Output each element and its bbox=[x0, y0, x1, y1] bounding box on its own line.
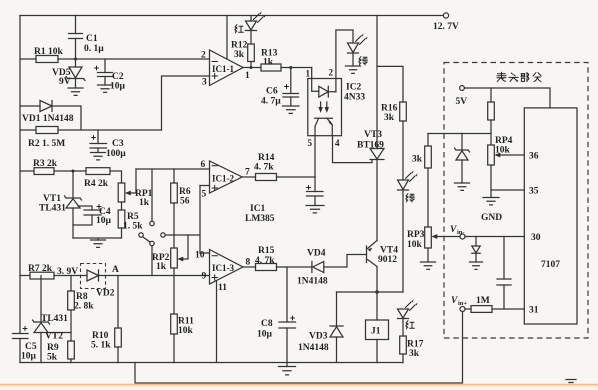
IC 7107 bbox=[524, 108, 577, 324]
svg-text:10k: 10k bbox=[178, 326, 194, 336]
svg-text:RP4: RP4 bbox=[495, 136, 513, 146]
svg-text:C8: C8 bbox=[261, 319, 273, 329]
svg-text:5k: 5k bbox=[47, 353, 58, 363]
svg-text:R8: R8 bbox=[76, 292, 88, 302]
svg-text:VD3: VD3 bbox=[309, 332, 328, 342]
svg-text:R6: R6 bbox=[179, 187, 191, 197]
capacitor C5 10u bbox=[19, 276, 21, 363]
terminal Vin+ bbox=[460, 307, 465, 312]
resistor R11 10k bbox=[173, 268, 175, 363]
svg-text:GND: GND bbox=[481, 213, 502, 223]
diode VD1 1N4148 bbox=[20, 106, 81, 130]
svg-text:3k: 3k bbox=[384, 113, 395, 123]
svg-text:4. 7k: 4. 7k bbox=[254, 163, 274, 173]
svg-text:2. 8k: 2. 8k bbox=[74, 302, 94, 312]
svg-text:VT1: VT1 bbox=[43, 194, 61, 204]
svg-text:1: 1 bbox=[245, 71, 250, 81]
op-amp IC1-1 bbox=[210, 50, 244, 86]
svg-text:R17: R17 bbox=[407, 340, 424, 350]
svg-text:V: V bbox=[451, 296, 458, 306]
ground under C7 bbox=[306, 206, 324, 213]
svg-text:IC1-1: IC1-1 bbox=[212, 64, 234, 74]
capacitor C6 4.7u bbox=[289, 66, 292, 69]
orange page rule bbox=[0, 384, 598, 386]
resistor R15 4.7k bbox=[256, 264, 277, 271]
resistor R14 4.7k bbox=[256, 174, 277, 181]
svg-text:R1 10k: R1 10k bbox=[34, 47, 63, 57]
svg-text:7: 7 bbox=[245, 168, 250, 178]
svg-text:11: 11 bbox=[218, 283, 227, 293]
resistor R2 1.5M bbox=[20, 129, 162, 131]
capacitor C9 internal bbox=[503, 237, 505, 310]
wire IC1-1 output bbox=[243, 67, 261, 69]
diode VD4 1N4148 bbox=[311, 262, 313, 273]
svg-text:2: 2 bbox=[329, 68, 334, 78]
svg-text:C2: C2 bbox=[112, 72, 124, 82]
resistor R16 3k bbox=[400, 102, 407, 121]
resistor R10 5.1k bbox=[117, 276, 119, 363]
svg-text:in+: in+ bbox=[458, 300, 467, 307]
svg-text:R7 2k: R7 2k bbox=[28, 264, 53, 274]
svg-text:10k: 10k bbox=[407, 240, 423, 250]
resistor R9 5k bbox=[68, 341, 75, 359]
svg-text:35: 35 bbox=[529, 187, 539, 197]
svg-text:100µ: 100µ bbox=[106, 149, 126, 159]
svg-text:5. 1k: 5. 1k bbox=[91, 341, 111, 351]
node VT4 collector bbox=[375, 290, 379, 294]
svg-text:TL431: TL431 bbox=[39, 204, 66, 214]
svg-text:1: 1 bbox=[306, 69, 311, 79]
resistor R7 2k bbox=[20, 275, 81, 277]
svg-text:30: 30 bbox=[531, 233, 541, 243]
svg-text:R11: R11 bbox=[178, 317, 194, 327]
wire opto pin5 riser bbox=[314, 136, 316, 177]
ground under C3 bbox=[91, 153, 106, 160]
wire IC1-3 pin11 ground bbox=[216, 281, 218, 363]
svg-text:6: 6 bbox=[201, 160, 206, 170]
capacitor C3 100u bbox=[97, 130, 99, 153]
svg-text:BT169: BT169 bbox=[357, 141, 384, 151]
resistor R4 2k bbox=[86, 168, 110, 175]
switch S contacts bbox=[150, 221, 154, 225]
wire bottom common rail bbox=[20, 362, 403, 364]
opto phototransistor bbox=[315, 117, 333, 119]
svg-text:1k: 1k bbox=[156, 262, 167, 272]
svg-text:7107: 7107 bbox=[541, 260, 560, 270]
wire IC1-1 pin3 riser bbox=[162, 76, 210, 130]
svg-text:4. 7k: 4. 7k bbox=[255, 256, 275, 266]
protection diode under Vin- bbox=[475, 237, 477, 247]
svg-text:5: 5 bbox=[202, 190, 207, 200]
resistor R6 56 bbox=[173, 169, 175, 248]
zener VD5 9V bbox=[75, 59, 77, 67]
svg-text:VD1 1N4148: VD1 1N4148 bbox=[22, 114, 74, 124]
svg-text:10µ: 10µ bbox=[21, 352, 37, 362]
svg-text:12. 7V: 12. 7V bbox=[433, 22, 459, 32]
wire top supply rail bbox=[20, 15, 443, 17]
svg-text:in-: in- bbox=[457, 229, 465, 236]
ground under VD5 bbox=[68, 88, 83, 95]
wire opto pin2 to green LED bbox=[336, 30, 353, 92]
svg-text:RP3: RP3 bbox=[407, 230, 425, 240]
svg-text:VT4: VT4 bbox=[380, 246, 398, 256]
svg-text:IC1-2: IC1-2 bbox=[212, 174, 234, 184]
resistor 1M bbox=[465, 308, 524, 310]
label red (hong) bbox=[235, 25, 244, 34]
wire IC1-2 pin5 bbox=[200, 185, 210, 187]
opto internal LED bbox=[312, 68, 319, 92]
terminal Vin- bbox=[436, 236, 460, 238]
svg-text:VD2: VD2 bbox=[96, 289, 115, 299]
wire switch pole to A rail bbox=[151, 246, 153, 276]
svg-text:3: 3 bbox=[202, 78, 207, 88]
svg-text:3k: 3k bbox=[409, 349, 420, 359]
capacitor C7 bbox=[314, 177, 316, 206]
resistor R5 1.5k bbox=[118, 210, 125, 228]
svg-text:10µ: 10µ bbox=[257, 330, 273, 340]
svg-text:A: A bbox=[112, 265, 119, 275]
capacitor C1 bbox=[75, 16, 77, 60]
svg-text:3k: 3k bbox=[234, 50, 245, 60]
svg-text:R4 2k: R4 2k bbox=[84, 179, 109, 189]
svg-text:R10: R10 bbox=[92, 331, 109, 341]
svg-text:1N4148: 1N4148 bbox=[297, 277, 328, 287]
ground under C2 bbox=[98, 85, 113, 92]
optocoupler IC2 4N33 bbox=[308, 79, 342, 136]
svg-text:VT2: VT2 bbox=[45, 332, 63, 342]
relay J1 bbox=[376, 292, 378, 363]
svg-text:V: V bbox=[450, 225, 457, 235]
svg-text:31: 31 bbox=[529, 306, 539, 316]
terminal 12.7V bbox=[443, 13, 448, 18]
svg-text:TL431: TL431 bbox=[41, 314, 68, 324]
resistor R17 3k bbox=[400, 336, 407, 354]
opto coupling arrows bbox=[321, 102, 327, 108]
capacitor C2 bbox=[104, 59, 106, 85]
wire link to 3k bbox=[428, 133, 491, 135]
ground GND in meter box bbox=[490, 190, 492, 198]
svg-text:10µ: 10µ bbox=[110, 82, 126, 92]
zener in meter box bbox=[461, 134, 463, 151]
switch lever bbox=[143, 237, 151, 243]
svg-text:5: 5 bbox=[308, 138, 313, 148]
resistor R8 2.8k bbox=[70, 276, 72, 342]
svg-text:R9: R9 bbox=[47, 343, 59, 353]
diode VD2 in dashed box bbox=[81, 264, 106, 289]
svg-text:R3 2k: R3 2k bbox=[33, 159, 58, 169]
svg-text:0. 1µ: 0. 1µ bbox=[84, 44, 104, 54]
svg-text:C3: C3 bbox=[112, 139, 124, 149]
LED green middle bbox=[398, 180, 409, 190]
shunt reg VT2 TL431 bbox=[40, 276, 42, 323]
wire opto pin4 to VT3 gate bbox=[333, 136, 373, 163]
wire 5V feed bbox=[464, 88, 550, 108]
svg-text:4: 4 bbox=[335, 138, 340, 148]
dashed meter box bbox=[444, 63, 588, 339]
thyristor VT3 BT169 bbox=[376, 16, 378, 149]
svg-text:9V: 9V bbox=[59, 77, 71, 87]
label meter section (biao tou bu fen) bbox=[497, 72, 506, 81]
wire IC1-1 V+ riser bbox=[226, 16, 228, 60]
svg-text:56: 56 bbox=[180, 197, 190, 207]
ground node VT1/C4/R5 bbox=[73, 238, 122, 240]
svg-text:R12: R12 bbox=[231, 41, 248, 51]
resistor R12 3k bbox=[248, 44, 255, 62]
svg-text:VD4: VD4 bbox=[307, 249, 326, 259]
svg-text:J1: J1 bbox=[371, 327, 381, 337]
svg-text:1N4148: 1N4148 bbox=[298, 343, 329, 353]
wire outer bottom return bbox=[135, 312, 463, 384]
svg-text:LM385: LM385 bbox=[245, 214, 275, 224]
op-amp IC1-2 bbox=[210, 161, 243, 193]
pot RP3 10k bbox=[425, 227, 432, 248]
op-amp IC1-3 bbox=[210, 250, 244, 285]
page artifact marks bbox=[566, 380, 576, 383]
svg-text:1. 5k: 1. 5k bbox=[123, 222, 143, 232]
svg-text:IC2: IC2 bbox=[346, 83, 362, 93]
resistor R3 2k bbox=[20, 170, 86, 172]
node R1-C1-VD5 bbox=[74, 58, 77, 61]
wire IC1-3 output bbox=[243, 266, 256, 268]
svg-text:R14: R14 bbox=[258, 153, 275, 163]
resistor R13 1k bbox=[261, 64, 281, 71]
svg-text:C1: C1 bbox=[86, 34, 98, 44]
wire comparator reference rail bbox=[136, 168, 210, 170]
shunt reg VT1 TL431 bbox=[72, 171, 74, 198]
svg-text:R5: R5 bbox=[127, 212, 139, 222]
resistor upper divider bbox=[490, 88, 492, 102]
label red (hong) bottom bbox=[406, 321, 415, 330]
svg-text:1k: 1k bbox=[263, 58, 274, 68]
wire left vertical bus bbox=[19, 16, 21, 276]
pot RP1 1k bbox=[118, 183, 125, 202]
svg-text:R2 1. 5M: R2 1. 5M bbox=[28, 139, 65, 149]
svg-text:R15: R15 bbox=[258, 246, 275, 256]
svg-text:C6: C6 bbox=[266, 87, 278, 97]
svg-text:1k: 1k bbox=[139, 198, 150, 208]
label green (lv) bbox=[359, 57, 367, 66]
wire switch to comparator inputs bbox=[165, 186, 200, 254]
diode VD3 1N4148 bbox=[336, 292, 338, 326]
ground under C6 bbox=[283, 106, 300, 113]
pot RP2 1k bbox=[171, 248, 178, 268]
svg-text:3. 9V: 3. 9V bbox=[57, 267, 78, 277]
ground under green LED bbox=[346, 66, 361, 73]
resistor 3k outside box bbox=[427, 134, 429, 147]
svg-text:8: 8 bbox=[246, 258, 251, 268]
svg-text:4N33: 4N33 bbox=[344, 93, 365, 103]
LED red bottom bbox=[398, 309, 409, 318]
terminal 5V bbox=[460, 86, 465, 91]
svg-text:10: 10 bbox=[195, 251, 205, 261]
transistor VT4 9012 bbox=[366, 246, 368, 263]
svg-text:4. 7µ: 4. 7µ bbox=[261, 97, 281, 107]
svg-text:9: 9 bbox=[202, 272, 207, 282]
pot RP4 10k bbox=[488, 145, 495, 165]
svg-text:VT3: VT3 bbox=[364, 130, 382, 140]
wire Vin- to pin30 bbox=[465, 236, 524, 238]
capacitor C4 10u bbox=[73, 206, 92, 225]
wire stub to switch contact bbox=[151, 169, 153, 221]
svg-text:36: 36 bbox=[529, 152, 539, 162]
label green (lv) middle bbox=[406, 194, 414, 203]
svg-text:3k: 3k bbox=[412, 155, 423, 165]
svg-text:IC1-3: IC1-3 bbox=[212, 263, 234, 273]
wire A rail to pin9 bbox=[106, 275, 210, 277]
svg-text:1M: 1M bbox=[476, 296, 490, 306]
svg-text:10k: 10k bbox=[495, 146, 511, 156]
LED green top bbox=[348, 43, 359, 53]
capacitor C8 10u bbox=[286, 267, 288, 363]
svg-text:C5: C5 bbox=[25, 342, 37, 352]
wire IC1-3 pin10 bbox=[200, 252, 210, 254]
svg-text:2: 2 bbox=[201, 51, 206, 61]
svg-text:R16: R16 bbox=[381, 104, 398, 114]
resistor R1 bbox=[20, 58, 210, 60]
svg-text:10µ: 10µ bbox=[96, 216, 112, 226]
wire R16 top link bbox=[377, 66, 403, 102]
svg-text:5V: 5V bbox=[456, 97, 468, 107]
wire IC1-2 output bbox=[242, 176, 255, 178]
LED red top bbox=[250, 16, 252, 22]
ground main below rail bbox=[286, 363, 288, 367]
svg-text:9012: 9012 bbox=[378, 255, 397, 265]
svg-text:IC1: IC1 bbox=[250, 204, 266, 214]
wire pin35 link bbox=[491, 165, 524, 190]
